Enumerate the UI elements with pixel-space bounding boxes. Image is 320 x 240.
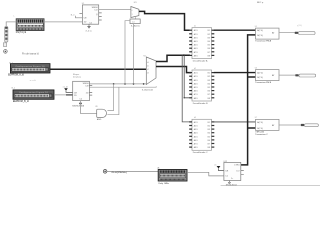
svg-text:A(7:0): A(7:0)	[257, 29, 263, 32]
svg-text:B1: B1	[208, 30, 210, 32]
svg-text:Transmisor C: Transmisor C	[255, 133, 268, 136]
svg-text:2D: 2D	[86, 92, 89, 94]
svg-text:Q: Q	[96, 14, 98, 16]
wire U1 to mux M1	[99, 8, 131, 10]
svg-text:A4 D: A4 D	[194, 40, 199, 43]
op IC U3 (counter bottom-right)	[224, 162, 241, 180]
clock display block DS2 (bottom)	[158, 170, 187, 182]
svg-text:d2: d2	[194, 68, 196, 70]
output port P2	[295, 74, 315, 77]
svg-text:Reloj 1MHz: Reloj 1MHz	[158, 183, 169, 185]
output port P1	[295, 25, 315, 34]
svg-text:SN74LS166: SN74LS166	[72, 105, 85, 107]
svg-text:EEPROM_B_ld: EEPROM_B_ld	[13, 101, 30, 103]
svg-text:C3/: C3/	[85, 86, 89, 88]
transmitter block R1	[255, 26, 279, 43]
svg-text:AND: AND	[97, 118, 102, 121]
svg-text:B2: B2	[208, 76, 210, 78]
svg-text:B1: B1	[208, 122, 210, 124]
U3 bottom pin + terminal	[228, 181, 230, 185]
svg-text:C1/: C1/	[94, 9, 98, 11]
svg-text:B(7:0): B(7:0)	[257, 77, 263, 79]
bold clock bus from U3 up feeding R1 R2 R3	[241, 35, 256, 165]
svg-text:CE: CE	[225, 171, 229, 173]
svg-text:B5: B5	[208, 136, 210, 138]
svg-text:B1: B1	[208, 73, 210, 75]
svg-text:A3 D: A3 D	[194, 79, 199, 82]
svg-text:B5: B5	[208, 87, 210, 89]
tap tag feeding U3	[214, 164, 224, 170]
select wire U2.Q to mux M2 corner with junctions	[89, 83, 146, 86]
svg-text:A4 D: A4 D	[194, 132, 199, 135]
mux M2 (center)	[146, 57, 156, 85]
svg-text:Decodificador C: Decodificador C	[193, 151, 208, 154]
clock source icon C2 (bottom)	[103, 170, 107, 174]
stack block DEC-A (decoder 1)	[189, 26, 214, 63]
svg-text:Transmisor FM A: Transmisor FM A	[255, 39, 271, 42]
svg-text:A8 D: A8 D	[194, 97, 199, 100]
svg-text:U9: U9	[95, 106, 97, 108]
config block EEPROM A	[10, 64, 50, 73]
output port P3	[301, 124, 319, 127]
svg-text:A3 D: A3 D	[194, 36, 199, 39]
faint line bottom right	[221, 185, 320, 187]
svg-text:B8: B8	[208, 98, 210, 100]
svg-text:Decodificador B: Decodificador B	[193, 102, 208, 105]
svg-text:d1: d1	[194, 26, 196, 28]
svg-text:B7: B7	[208, 94, 210, 96]
wire R1 to out port	[279, 32, 295, 34]
tap tag feeding U2	[63, 87, 73, 93]
svg-text:A2 D: A2 D	[194, 125, 199, 128]
vertical select wires up to S_A box	[125, 21, 130, 84]
svg-text:U12: U12	[224, 161, 227, 163]
svg-text:0: 0	[132, 10, 133, 12]
svg-text:DS(7:0) ld: DS(7:0) ld	[16, 32, 27, 34]
bold wire M2 out1 to stack DEC-A row8	[156, 55, 190, 61]
svg-text:A2 D: A2 D	[194, 33, 199, 36]
svg-text:Decodificador A: Decodificador A	[193, 60, 208, 63]
svg-text:CE: CE	[84, 18, 88, 20]
svg-text:d2: d2	[147, 69, 149, 71]
svg-text:desplaza: desplaza	[73, 76, 82, 78]
stack block DEC-C (decoder 3)	[189, 117, 214, 154]
svg-text:Fin de trama ld: Fin de trama ld	[22, 53, 39, 56]
svg-text:A1 D: A1 D	[194, 72, 199, 75]
svg-text:A4 D: A4 D	[194, 82, 199, 85]
wire EEPROM B to U2	[54, 94, 73, 96]
wire DS1 to U1	[44, 21, 82, 23]
svg-text:A2 D: A2 D	[194, 75, 199, 78]
svg-text:B(7:0): B(7:0)	[257, 35, 263, 37]
svg-text:B7: B7	[208, 144, 210, 146]
svg-text:1D: 1D	[74, 95, 77, 97]
svg-text:A7 D: A7 D	[194, 143, 199, 146]
svg-text:B3: B3	[208, 129, 210, 131]
bold wire DEC-A out to R1	[214, 29, 256, 31]
bold wire EEPROM A to mux M2	[50, 68, 146, 70]
svg-text:B4: B4	[208, 133, 210, 135]
U3 right pin stubs	[241, 171, 244, 175]
wire R3 to out port	[279, 124, 301, 126]
svg-text:B8: B8	[208, 55, 210, 57]
transmitter block R3	[255, 117, 279, 136]
svg-text:B5: B5	[208, 45, 210, 47]
mux M1 (top)	[131, 7, 139, 18]
wire DS2 to U3	[187, 172, 224, 176]
G1 output wires up to select line	[107, 84, 113, 111]
svg-text:A6 D: A6 D	[194, 139, 199, 142]
U2 right pin stubs	[89, 86, 92, 96]
tap tag B0 feeding U1	[71, 14, 83, 17]
svg-text:B6: B6	[208, 140, 210, 142]
svg-text:M2: M2	[143, 56, 146, 58]
svg-text:CO: CO	[236, 171, 240, 173]
svg-text:A7 D: A7 D	[194, 93, 199, 96]
wire DEC-C out to R3	[214, 121, 256, 123]
small box below VR1	[3, 43, 6, 47]
svg-text:B7: B7	[208, 52, 210, 54]
svg-text:S_A(1:0): S_A(1:0)	[131, 25, 140, 28]
svg-text:A(7:0): A(7:0)	[257, 71, 263, 74]
op IC U1 (shift register top)	[82, 5, 98, 25]
svg-text:BFC p: BFC p	[257, 2, 264, 4]
svg-text:d3: d3	[194, 117, 196, 119]
display block DS1 (top-left data display)	[16, 19, 44, 31]
transmitter block R2	[255, 67, 279, 84]
thin bus down to DEC-B row8 and DEC-C row1	[182, 55, 190, 122]
clock source icon C1 (left)	[4, 50, 8, 54]
svg-text:1: 1	[132, 14, 133, 16]
svg-text:A5 D: A5 D	[194, 135, 199, 138]
svg-text:B6: B6	[208, 91, 210, 93]
svg-text:e s d t: e s d t	[30, 79, 36, 82]
svg-text:B3: B3	[208, 37, 210, 39]
svg-text:A5 D: A5 D	[194, 86, 199, 89]
svg-text:S_B(1:0) ld: S_B(1:0) ld	[142, 90, 154, 92]
svg-text:d3: d3	[147, 73, 149, 75]
svg-text:CTR4: CTR4	[234, 165, 240, 167]
svg-text:U7: U7	[255, 117, 257, 119]
AND gate G1	[97, 109, 107, 117]
slider/thermometer source VR1	[5, 27, 8, 42]
svg-text:EEPROM_A_ld: EEPROM_A_ld	[8, 73, 25, 76]
svg-text:B4: B4	[208, 83, 210, 85]
svg-text:B4: B4	[208, 41, 210, 43]
svg-text:A1 D: A1 D	[194, 121, 199, 124]
wire U2 second out under mux M2	[89, 86, 156, 87]
svg-text:y(7:0): y(7:0)	[297, 25, 302, 27]
bold wire M2 out2 to stack DEC-B row1	[156, 67, 191, 73]
svg-text:U6: U6	[255, 67, 257, 69]
svg-text:d0: d0	[147, 62, 149, 64]
svg-text:A7 D: A7 D	[194, 51, 199, 54]
config block EEPROM B	[13, 90, 54, 99]
svg-text:en: en	[214, 164, 216, 166]
stack block DEC-B (decoder 2)	[189, 68, 214, 105]
op IC U2 (shift register middle)	[73, 81, 90, 100]
svg-text:A8 D: A8 D	[194, 146, 199, 149]
U1 right pin stubs	[99, 13, 102, 20]
svg-text:B2: B2	[208, 126, 210, 128]
wire VR1 to DS1	[6, 22, 16, 27]
svg-text:d1: d1	[147, 66, 149, 68]
constant box S_A below M1	[130, 17, 140, 23]
svg-text:B2: B2	[208, 34, 210, 36]
svg-text:X_0 ss: X_0 ss	[86, 31, 92, 33]
svg-text:B3: B3	[208, 80, 210, 82]
U1 bottom pin + terminal	[86, 24, 92, 32]
wire U2 bottom to AND gate	[80, 101, 96, 114]
svg-text:A5 D: A5 D	[194, 44, 199, 47]
svg-text:A(7:0): A(7:0)	[257, 121, 263, 124]
svg-text:B8: B8	[208, 147, 210, 149]
bold wire M1 out to stack DEC-A	[139, 11, 190, 30]
svg-text:B(7:0): B(7:0)	[257, 128, 263, 130]
svg-text:A3 D: A3 D	[194, 128, 199, 131]
svg-text:A6 D: A6 D	[194, 90, 199, 93]
wire C2 to clock display	[107, 171, 158, 173]
dark mark on U2 bottom pin	[79, 103, 82, 105]
svg-text:Transmisor FM B: Transmisor FM B	[255, 81, 271, 84]
svg-text:B6: B6	[208, 48, 210, 50]
svg-text:1D: 1D	[84, 21, 87, 23]
svg-text:A6 D: A6 D	[194, 47, 199, 50]
wire R2 to out port	[279, 74, 295, 76]
svg-text:ee_ld: ee_ld	[63, 87, 68, 89]
svg-text:A1 D: A1 D	[194, 29, 199, 32]
svg-text:U5: U5	[255, 26, 257, 28]
bold wire DEC-B out to R2	[214, 72, 256, 74]
svg-text:A8 D: A8 D	[194, 54, 199, 57]
